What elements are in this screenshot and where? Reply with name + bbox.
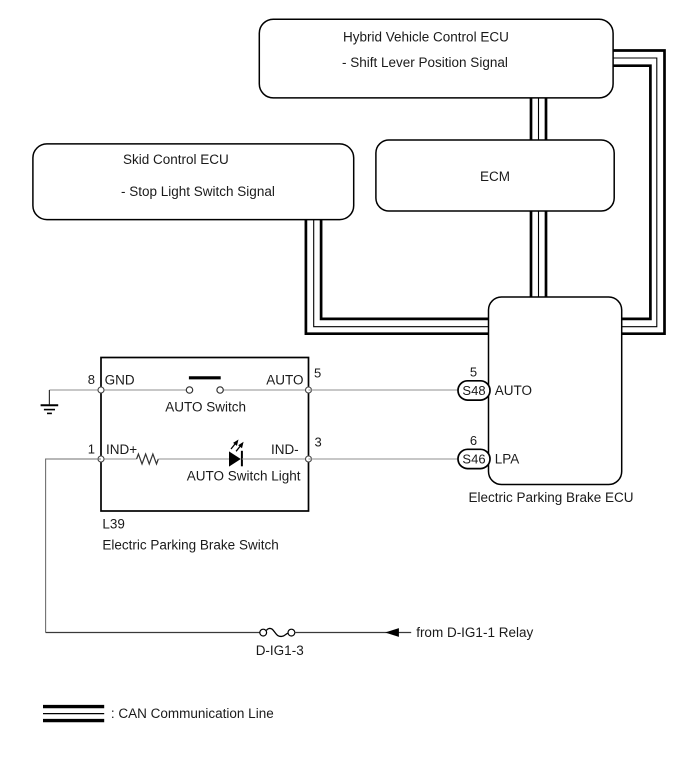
ECU box U4: Electric Parking Brake ECU <box>468 297 633 505</box>
legend: CAN line sample, middle thin <box>43 713 104 715</box>
ground symbol <box>41 405 59 413</box>
wire: pin 3 to connector S46 <box>309 458 459 460</box>
pin 1 terminal circle <box>98 456 104 462</box>
CAN bus line: Hybrid ECU right side to EPB ECU, middle thin <box>613 58 657 327</box>
wire: pin 5 to connector S48 <box>309 389 459 391</box>
svg-text:8: 8 <box>88 372 95 387</box>
svg-text:ECM: ECM <box>480 169 510 184</box>
svg-text:S46: S46 <box>462 452 485 467</box>
svg-text:LPA: LPA <box>495 452 520 467</box>
switch box S1: Electric Parking Brake Switch outline <box>101 358 309 512</box>
connector S48 <box>458 381 490 400</box>
CAN bus line: Hybrid ECU right side to EPB ECU, inner thick <box>613 66 650 319</box>
LED D1: triangle <box>229 451 241 466</box>
switch SW1: AUTO Switch bar <box>189 376 221 379</box>
svg-text:Hybrid Vehicle Control ECU: Hybrid Vehicle Control ECU <box>343 30 509 45</box>
CAN bus line: ECM to EPB ECU, left thick <box>530 211 533 297</box>
wire: pin 1 down and along bottom to fuse <box>46 459 101 633</box>
connector S46 <box>458 449 490 468</box>
pin 3 terminal circle <box>306 456 312 462</box>
svg-text:5: 5 <box>470 365 477 380</box>
svg-text:AUTO Switch: AUTO Switch <box>165 400 246 415</box>
svg-text:AUTO: AUTO <box>495 383 532 398</box>
resistor R1 <box>137 454 159 464</box>
svg-text:S48: S48 <box>462 383 485 398</box>
wire: resistor to LED <box>158 458 230 460</box>
arrow: feed direction from D-IG1-1 Relay <box>385 628 399 637</box>
wire: LED to pin 3 <box>242 458 309 460</box>
CAN bus line: Hybrid ECU to ECM, middle thin <box>538 98 540 140</box>
svg-text:Skid Control ECU: Skid Control ECU <box>123 152 229 167</box>
svg-text:AUTO: AUTO <box>266 373 303 388</box>
CAN bus line: Hybrid ECU to ECM, right thick <box>545 98 548 140</box>
legend: CAN line sample, top thick <box>43 705 104 708</box>
svg-text:IND-: IND- <box>271 442 299 457</box>
ECU box U3: ECM <box>376 140 614 211</box>
CAN bus line: Skid Control ECU to EPB ECU, outer thick <box>306 220 489 334</box>
wire: fuse to relay feed <box>294 632 411 634</box>
svg-text:: CAN Communication Line: : CAN Communication Line <box>111 706 274 721</box>
wire: pin 8 to AUTO switch left contact <box>101 389 186 391</box>
svg-text:from D-IG1-1 Relay: from D-IG1-1 Relay <box>416 625 533 640</box>
fuse F1 D-IG1-3: wave element <box>266 628 288 636</box>
CAN bus line: ECM to EPB ECU, right thick <box>545 211 548 297</box>
switch SW1: right contact circle <box>217 387 223 393</box>
fuse F1 D-IG1-3: right circle <box>288 629 295 636</box>
pin 8 terminal circle <box>98 387 104 393</box>
LED D1: light arrow 2 <box>236 442 244 452</box>
legend: CAN line sample, bottom thick <box>43 719 104 722</box>
svg-text:Electric Parking Brake ECU: Electric Parking Brake ECU <box>468 490 633 505</box>
svg-text:L39: L39 <box>102 517 125 532</box>
LED D1: light arrow 1 <box>231 440 239 450</box>
fuse F1 D-IG1-3: left circle <box>260 629 267 636</box>
svg-text:- Shift Lever Position Signal: - Shift Lever Position Signal <box>342 55 508 70</box>
svg-text:6: 6 <box>470 433 477 448</box>
pin 5 terminal circle <box>306 387 312 393</box>
svg-text:AUTO Switch Light: AUTO Switch Light <box>187 469 301 484</box>
svg-text:1: 1 <box>88 442 95 457</box>
svg-text:IND+: IND+ <box>106 442 137 457</box>
svg-text:GND: GND <box>105 373 135 388</box>
svg-text:5: 5 <box>314 366 321 381</box>
CAN bus line: Skid Control ECU to EPB ECU, inner thick <box>321 220 488 319</box>
wire: AUTO switch right contact to pin 5 <box>223 389 308 391</box>
svg-text:- Stop Light Switch Signal: - Stop Light Switch Signal <box>121 184 275 199</box>
svg-text:D-IG1-3: D-IG1-3 <box>256 643 304 658</box>
ECU box U2: Skid Control ECU <box>33 144 354 220</box>
CAN bus line: Skid Control ECU to EPB ECU, middle thin <box>314 220 489 327</box>
wire: pin 1 to resistor <box>101 458 137 460</box>
switch SW1: left contact circle <box>186 387 192 393</box>
svg-text:Electric Parking Brake Switch: Electric Parking Brake Switch <box>102 538 278 553</box>
wire: pin 8 to ground <box>49 389 101 391</box>
CAN bus line: Hybrid ECU right side to EPB ECU, outer thick <box>613 51 665 334</box>
svg-text:3: 3 <box>315 435 322 450</box>
ECU box U1: Hybrid Vehicle Control ECU <box>259 19 613 98</box>
CAN bus line: ECM to EPB ECU, middle thin <box>538 211 540 297</box>
CAN bus line: Hybrid ECU to ECM, left thick <box>530 98 533 140</box>
LED D1: cathode bar <box>241 451 243 467</box>
